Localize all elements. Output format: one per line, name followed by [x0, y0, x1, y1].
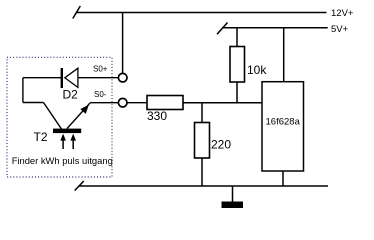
supply break slash on 12V+ rail [73, 6, 81, 19]
wire 5V+ rail [222, 27, 328, 29]
wire lower horizontal to collector [23, 102, 44, 104]
svg-text:Finder kWh puls uitgang: Finder kWh puls uitgang [12, 155, 113, 166]
wire S0+ circle to diode [78, 77, 119, 79]
svg-text:T2: T2 [34, 130, 48, 144]
wire emitter to S0- circle [90, 102, 118, 104]
wire left vertical [22, 78, 24, 103]
wire junction down to resistor 220 [201, 103, 203, 123]
wire diode cathode to left bend [23, 77, 62, 79]
svg-text:12V+: 12V+ [331, 8, 354, 19]
diode D2 [62, 68, 78, 101]
svg-text:S0+: S0+ [93, 65, 108, 74]
wire 10k lower lead to junction [236, 82, 238, 103]
svg-text:D2: D2 [63, 87, 79, 101]
light arrow 2 [72, 137, 74, 149]
svg-text:5V+: 5V+ [331, 24, 349, 35]
wire ground rail [79, 185, 328, 187]
terminal S0+ [118, 73, 127, 82]
svg-text:220: 220 [211, 138, 231, 152]
resistor 10k [230, 47, 267, 83]
wire 10k upper lead to 5V+ rail [236, 28, 238, 47]
emitter lead [67, 103, 90, 129]
wire 12V+ rail [77, 12, 327, 14]
collector lead [44, 103, 62, 130]
light arrow 1 [62, 137, 64, 149]
svg-text:10k: 10k [247, 63, 267, 77]
base bar [53, 129, 81, 134]
wire 5V+ rail down to chip top [283, 28, 285, 82]
transistor T2 (phototransistor) [34, 103, 91, 150]
wire S0- circle to resistor 330 [127, 102, 147, 104]
emitter arrowhead [80, 105, 89, 114]
dotted enclosure: Finder kWh pulse output [7, 57, 112, 177]
supply break slash on ground rail [75, 181, 84, 191]
IC U1 16f628a [262, 82, 304, 171]
wire ground stub [232, 186, 234, 202]
terminal S0- [118, 98, 127, 107]
resistor 220 [195, 123, 232, 159]
wire chip bottom lead to ground rail [282, 171, 284, 186]
ground symbol [222, 202, 244, 209]
svg-text:16f628a: 16f628a [266, 117, 301, 128]
svg-text:330: 330 [147, 109, 167, 123]
supply break slash on 5V+ rail [217, 23, 228, 35]
wire from 12V+ rail down to S0+ terminal [122, 13, 124, 74]
wire 330 to PIC chip [183, 102, 262, 104]
resistor 330 [147, 96, 183, 124]
svg-text:S0-: S0- [94, 90, 107, 99]
wire 220 to ground rail [201, 158, 203, 186]
